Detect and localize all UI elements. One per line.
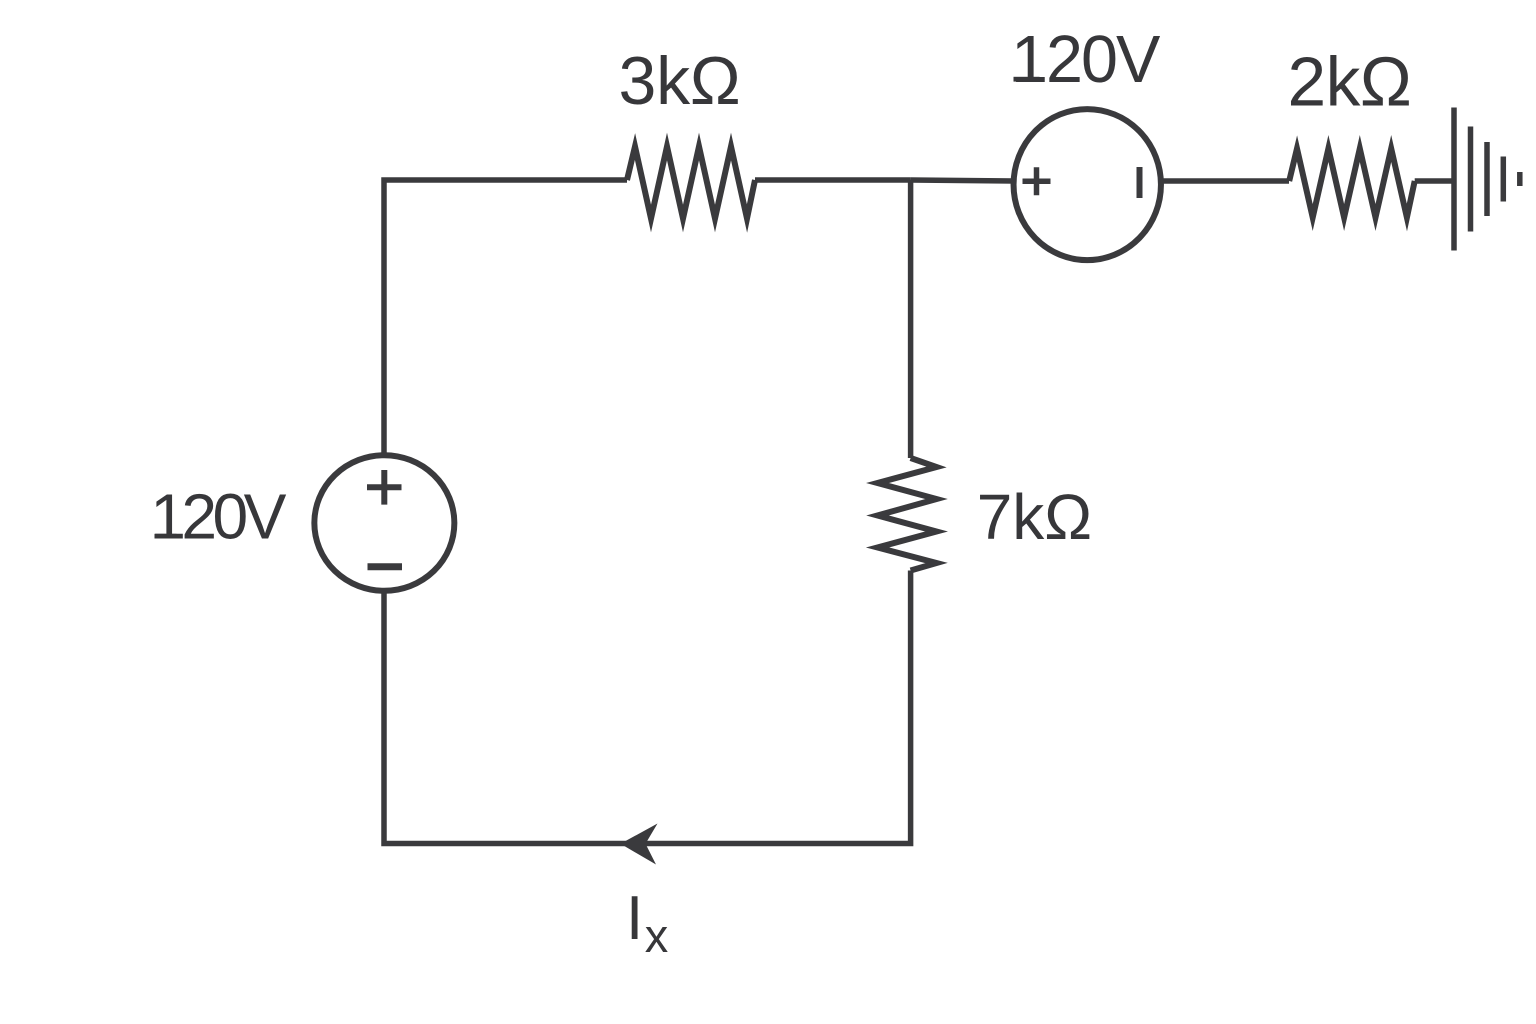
ground bar 5 — [1517, 172, 1523, 186]
wire: V1 top to top-left corner to R1 — [384, 180, 627, 453]
resistor R3 7kOhm — [878, 458, 937, 571]
serif foot of digit 1 in 120V (V2) — [1014, 77, 1040, 82]
wire: node A down to R3 — [908, 180, 914, 458]
ground bar 3 — [1484, 142, 1490, 216]
svg-text:120V: 120V — [150, 481, 286, 553]
wire: node A to V2 — [911, 180, 1014, 181]
svg-text:3kΩ: 3kΩ — [619, 43, 741, 119]
svg-text:Ix: Ix — [626, 884, 668, 962]
ground bar 2 — [1468, 127, 1474, 232]
svg-text:2kΩ: 2kΩ — [1288, 42, 1412, 120]
V2 minus bar (vertical) — [1137, 167, 1143, 198]
ground bar 4 — [1501, 157, 1507, 202]
wire: R1 to node A — [755, 177, 911, 183]
svg-text:120V: 120V — [1011, 23, 1161, 97]
svg-text:7kΩ: 7kΩ — [977, 481, 1092, 553]
resistor R2 2kOhm — [1289, 149, 1415, 218]
wire: R2 to ground — [1415, 178, 1453, 184]
V2 plus sign — [1023, 167, 1051, 195]
current arrow Ix — [621, 824, 658, 865]
V1 minus sign — [368, 563, 403, 570]
wire: R3 down, bottom rail, up to V1 — [384, 571, 911, 844]
serif foot of digit 1 in 120V (V1) — [155, 534, 177, 539]
resistor R1 3kOhm — [627, 147, 755, 219]
voltage source V1 circle — [314, 455, 454, 591]
ground bar 1 — [1451, 108, 1457, 251]
V1 plus sign — [367, 470, 402, 505]
voltage source V2 circle — [1014, 109, 1161, 260]
wire: V2 to R2 — [1161, 178, 1289, 184]
